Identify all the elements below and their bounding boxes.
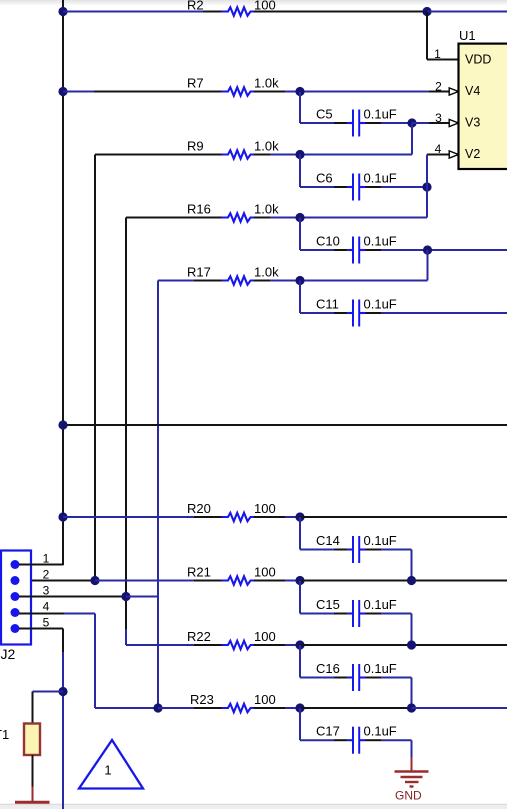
wire R17 left lead	[194, 280, 224, 282]
svg-text:1.0k: 1.0k	[254, 138, 279, 153]
pin 2 arrow (U1 V4)	[449, 88, 458, 95]
resistor R2 body	[222, 7, 256, 15]
wire bus horizontal y=425	[63, 424, 507, 426]
resistor R22 body	[222, 641, 256, 649]
capacitor C10 right lead	[366, 249, 382, 251]
pin 3 arrow (U1 V3)	[449, 119, 458, 126]
svg-text:R9: R9	[187, 138, 204, 153]
svg-text:V3: V3	[465, 116, 480, 130]
wire C15 row left	[300, 613, 334, 615]
connector J2 body	[1, 551, 31, 645]
junction (300,154.5) V3/C6	[295, 150, 304, 159]
wire R16 right lead	[254, 217, 270, 219]
capacitor C5 right lead	[366, 122, 382, 124]
wire T1 top vertical	[32, 692, 34, 724]
junction (411.5,580.5) C14 join	[407, 576, 416, 585]
svg-text:5: 5	[43, 615, 50, 629]
wire J2 pin3 lead	[19, 596, 126, 598]
svg-text:U1: U1	[459, 28, 476, 43]
capacitor C15 right lead	[366, 613, 382, 615]
wire VDD feed vertical	[426, 12, 428, 60]
wire J2 pin1 lead	[19, 564, 64, 566]
wire R23 output	[300, 707, 412, 709]
wire R23 row start	[158, 707, 194, 709]
capacitor C11 left lead	[334, 312, 348, 314]
wire R17 row start	[158, 280, 194, 282]
junction (63,91.5) net1/R7	[58, 87, 67, 96]
connector J2 pin 1 circle	[11, 560, 20, 569]
wire C5 row left	[300, 122, 334, 124]
wire R9 output	[270, 154, 412, 156]
capacitor C15 left lead	[334, 613, 348, 615]
svg-text:VDD: VDD	[465, 53, 491, 67]
wire R16 input vertical x=126	[125, 218, 127, 630]
svg-text:100: 100	[254, 501, 276, 516]
svg-text:C17: C17	[316, 724, 340, 739]
wire R7 right lead	[254, 91, 285, 93]
svg-text:C5: C5	[316, 107, 333, 122]
wire U1 pin1 VDD lead	[427, 59, 459, 61]
svg-text:R20: R20	[187, 501, 211, 516]
junction (411.5,708) C16 join	[407, 703, 416, 712]
wire pin4 net vertical	[94, 614, 96, 709]
wire R21 right lead	[254, 580, 285, 582]
svg-text:C6: C6	[316, 171, 333, 186]
ground bar symbol stem (bottom-left)	[32, 787, 34, 802]
capacitor C17 plates	[348, 739, 353, 741]
svg-text:V4: V4	[465, 84, 480, 98]
wire C17 row left	[300, 739, 334, 741]
svg-text:C15: C15	[316, 597, 340, 612]
wire pin4 extension	[64, 613, 95, 615]
junction (411.5,645) C15 join	[407, 640, 416, 649]
wire C16 down vertical	[411, 678, 413, 709]
wire U1 pin2 lead	[429, 91, 450, 93]
wire C14 row left	[300, 549, 334, 551]
wire R23 row to edge	[412, 707, 507, 709]
wire C10 row left	[300, 249, 334, 251]
junction (95,580.5)	[90, 576, 99, 585]
wire R9 input vertical x=95	[94, 155, 96, 581]
wire R21 row start	[95, 580, 194, 582]
triangle marker 1	[79, 740, 143, 789]
wire R20 output to edge	[300, 516, 507, 518]
wire C16 left vertical	[299, 645, 301, 678]
svg-text:0.1uF: 0.1uF	[364, 661, 397, 676]
wire C5 row right	[381, 122, 412, 124]
junction (427,11.5) VDD tap	[422, 7, 431, 16]
svg-text:0.1uF: 0.1uF	[364, 171, 397, 186]
connector J2 pin 2 circle	[11, 576, 20, 585]
capacitor C17 left lead	[334, 739, 348, 741]
wire R22 row start	[126, 644, 194, 646]
junction (427,187) V2 net	[422, 182, 431, 191]
capacitor C11 plates	[348, 312, 353, 314]
wire C10 row right to edge	[381, 249, 507, 251]
junction (300,517) C14 tap	[295, 512, 304, 521]
junction (63,517)	[58, 512, 67, 521]
wire R20 left lead	[194, 516, 224, 518]
junction (63,425)	[58, 420, 67, 429]
wire R2 row right	[254, 11, 427, 13]
svg-text:R7: R7	[187, 75, 204, 90]
wire R20 right lead	[254, 516, 285, 518]
wire pin5 vertical blue	[62, 652, 64, 809]
wire U1 pin4 lead	[427, 154, 450, 156]
resistor R16 body	[222, 213, 256, 221]
junction (63,691.5) T1 tap	[58, 687, 67, 696]
svg-text:R21: R21	[187, 564, 211, 579]
ground bar symbol (bottom-left)	[15, 801, 50, 804]
wire R2 row to edge	[427, 11, 507, 13]
svg-text:0.1uF: 0.1uF	[364, 234, 397, 249]
wire R20 row start	[63, 516, 194, 518]
wire C5 left vertical	[299, 92, 301, 124]
wire pin4 net horizontal	[95, 707, 158, 709]
wire R9 up to V3	[411, 123, 413, 155]
wire C11 row right to edge	[381, 312, 507, 314]
capacitor C14 left lead	[334, 549, 348, 551]
wire pin3 stub	[126, 596, 158, 598]
resistor R21 body	[222, 576, 256, 584]
op-amp U1 body (IC box)	[459, 44, 507, 169]
svg-text:2: 2	[43, 567, 50, 581]
wire R17 output	[270, 280, 428, 282]
svg-text:0.1uF: 0.1uF	[364, 597, 397, 612]
svg-text:100: 100	[254, 564, 276, 579]
svg-text:4: 4	[43, 599, 50, 613]
capacitor C14 right lead	[366, 549, 382, 551]
wire C11 row left	[300, 312, 334, 314]
svg-text:3: 3	[435, 111, 442, 125]
resistor R7 body	[222, 87, 256, 95]
svg-text:J2: J2	[1, 646, 16, 662]
wire J2 pin5 lead	[19, 628, 63, 630]
wire C6 row left	[300, 186, 334, 188]
capacitor C16 right lead	[366, 677, 382, 679]
connector J2 pin 5 circle	[11, 624, 20, 633]
ground GND symbol stem	[411, 757, 413, 772]
wire R9 right lead	[254, 154, 270, 156]
capacitor C16 plates	[348, 676, 353, 678]
wire C17 left vertical	[299, 708, 301, 740]
wire V2 vertical	[426, 155, 428, 218]
capacitor C14 plates	[348, 548, 353, 550]
wire R22 output to edge	[300, 644, 507, 646]
wire R7 to U1 V4	[285, 91, 429, 93]
wire J2 pin4 lead	[19, 613, 64, 615]
junction (63,11.5) net1/R2	[58, 7, 67, 16]
wire C10 left vertical	[299, 218, 301, 251]
svg-text:100: 100	[254, 692, 276, 707]
svg-text:100: 100	[254, 629, 276, 644]
svg-text:C10: C10	[316, 234, 340, 249]
junction (300,580.5) C15 tap	[295, 576, 304, 585]
wire C16 row right	[381, 677, 412, 679]
svg-text:3: 3	[43, 583, 50, 597]
wire R20 to tap	[285, 516, 300, 518]
wire R7 row start	[63, 91, 94, 93]
capacitor C17 right lead	[366, 739, 382, 741]
wire: net1 vertical trunk x=63 (J2 pin1 net)	[62, 0, 64, 565]
pin 4 arrow (U1 V2)	[449, 151, 458, 158]
junction (300,91.5) V4 net	[295, 87, 304, 96]
junction (300,645) C16 tap	[295, 640, 304, 649]
junction (300,217.5) C10 tap	[295, 213, 304, 222]
wire C11 left vertical	[299, 281, 301, 314]
wire R16 row	[126, 217, 224, 219]
capacitor C16 left lead	[334, 677, 348, 679]
capacitor C5 left lead	[334, 122, 348, 124]
svg-text:1: 1	[104, 763, 111, 778]
fuse T1 body	[24, 724, 40, 756]
capacitor C6 right lead	[366, 186, 382, 188]
svg-text:1: 1	[434, 47, 441, 61]
capacitor C15 plates	[348, 612, 353, 614]
svg-text:V2: V2	[465, 147, 480, 161]
svg-text:1.0k: 1.0k	[254, 264, 279, 279]
svg-text:R2: R2	[187, 0, 204, 13]
wire C14 down vertical	[411, 550, 413, 581]
wire T1 bottom vertical	[32, 755, 34, 787]
wire C15 down vertical	[411, 614, 413, 646]
svg-text:0.1uF: 0.1uF	[364, 107, 397, 122]
svg-text:2: 2	[435, 80, 442, 94]
wire pin3 net lower vertical	[125, 629, 127, 645]
wire pin5 vertical black	[62, 629, 64, 653]
junction (427.5,250) V1 net	[423, 245, 432, 254]
wire R17 input vertical x=158	[157, 281, 159, 709]
wire R16 output	[270, 217, 427, 219]
connector J2 pin 4 circle	[11, 608, 20, 617]
wire R22 left lead	[194, 644, 224, 646]
wire C15 row right	[381, 613, 412, 615]
wire C17 row right	[381, 739, 412, 741]
wire R23 to tap	[285, 707, 300, 709]
wire C15 left vertical	[299, 581, 301, 614]
wire J2 pin2 lead	[19, 580, 95, 582]
svg-text:R17: R17	[187, 264, 211, 279]
wire R23 right lead	[254, 707, 285, 709]
capacitor C11 right lead	[366, 312, 382, 314]
junction (158,708) R17 net join	[153, 703, 162, 712]
connector J2 pin 3 circle	[11, 592, 20, 601]
wire R2 left lead	[203, 11, 224, 13]
svg-text:R16: R16	[187, 201, 211, 216]
wire R21 output to edge	[300, 580, 507, 582]
svg-text:1.0k: 1.0k	[254, 201, 279, 216]
junction (412,123) V3 net	[407, 118, 416, 127]
svg-text:T1: T1	[0, 727, 9, 742]
svg-text:C14: C14	[316, 533, 340, 548]
svg-text:R22: R22	[187, 629, 211, 644]
svg-text:R23: R23	[190, 692, 214, 707]
resistor R23 body	[222, 704, 256, 712]
wire R21 left lead	[194, 580, 224, 582]
svg-text:1: 1	[43, 551, 50, 565]
wire R21 to tap	[285, 580, 300, 582]
wire C6 left vertical	[299, 155, 301, 188]
svg-text:C16: C16	[316, 661, 340, 676]
svg-text:GND: GND	[395, 789, 422, 803]
wire U1 pin3 lead	[429, 122, 450, 124]
wire R2 row left	[63, 11, 203, 13]
junction (300,708) C17 tap	[295, 703, 304, 712]
resistor R9 body	[222, 150, 256, 158]
svg-text:0.1uF: 0.1uF	[364, 724, 397, 739]
wire V1 vertical	[427, 250, 429, 281]
wire R9 row	[95, 154, 224, 156]
wire C14 left vertical	[299, 517, 301, 550]
capacitor C10 left lead	[334, 249, 348, 251]
resistor R20 body	[222, 513, 256, 521]
capacitor C5 plates	[348, 122, 353, 124]
svg-text:1.0k: 1.0k	[254, 75, 279, 90]
junction (126,596.5)	[121, 592, 130, 601]
wire R22 right lead	[254, 644, 285, 646]
wire C16 row left	[300, 677, 334, 679]
wire T1 top horizontal	[33, 691, 64, 693]
junction (300,280.5) C11 tap	[295, 276, 304, 285]
wire R17 right lead	[254, 280, 270, 282]
wire C14 row right	[381, 549, 412, 551]
wire V3 to pin3	[412, 122, 429, 124]
wire C17 gnd vertical	[411, 740, 413, 757]
capacitor C10 plates	[348, 249, 353, 251]
wire C6 row right	[381, 186, 427, 188]
resistor R17 body	[222, 276, 256, 284]
svg-text:0.1uF: 0.1uF	[364, 533, 397, 548]
capacitor C6 left lead	[334, 186, 348, 188]
svg-text:4: 4	[435, 142, 442, 156]
wire R23 left lead	[194, 707, 224, 709]
ground GND symbol bars	[395, 770, 429, 772]
svg-text:C11: C11	[316, 297, 339, 312]
svg-text:0.1uF: 0.1uF	[364, 297, 397, 312]
wire R7 row black	[94, 91, 224, 93]
wire R22 to tap	[285, 644, 300, 646]
capacitor C6 plates	[348, 186, 353, 188]
